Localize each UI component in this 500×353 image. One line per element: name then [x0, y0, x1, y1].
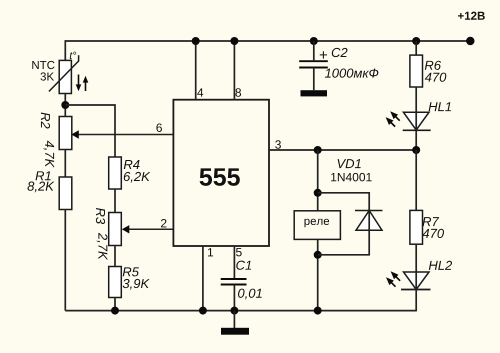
- wire R1 to bottom bus: [64, 210, 66, 311]
- wire R2 to R1: [64, 150, 66, 178]
- wire R7 top: [415, 150, 417, 210]
- relay K1 box: [294, 211, 340, 240]
- wire top +12V bus: [65, 40, 470, 42]
- arrow down (temperature): [76, 75, 82, 92]
- LED HL2 emission arrows: [386, 271, 400, 286]
- wire relay bottom: [317, 239, 319, 310]
- wire R7 to HL2: [415, 244, 417, 272]
- thermistor diagonal top stub: [78, 55, 80, 61]
- node R6/bus: [412, 37, 420, 45]
- thermistor RK1 NTC 3K body: [59, 60, 71, 93]
- wire ground stub: [233, 311, 235, 328]
- pin label 4: [197, 88, 203, 96]
- label 470 (R7): [423, 229, 445, 238]
- node C2/bus: [310, 37, 318, 45]
- label HL2: [429, 261, 452, 270]
- node relay/VD1 top: [314, 189, 322, 197]
- label 0,01: [238, 289, 262, 300]
- label VD1: [338, 159, 361, 168]
- wire C2 to ground: [313, 68, 315, 91]
- LED HL1 emission arrows: [386, 111, 400, 126]
- wire VD1 bottom branch: [318, 230, 370, 255]
- capacitor C2 plates: [299, 61, 328, 67]
- node junction NTC/R2/R4: [61, 101, 69, 109]
- node pin4/bus: [192, 37, 200, 45]
- label 555: [200, 168, 240, 185]
- wire pin1: [202, 246, 204, 311]
- node pin8/bus: [230, 37, 238, 45]
- wire R6 top: [415, 41, 417, 55]
- label R4: [124, 160, 140, 169]
- resistor R1 body: [59, 177, 72, 210]
- arrow up (resistance): [83, 76, 89, 91]
- op-amp U1 555 timer box: [173, 100, 269, 246]
- label R3: [96, 208, 105, 224]
- wire R6 to HL1: [415, 87, 417, 112]
- wire pin6 to R2 wiper: [78, 134, 174, 136]
- label C1: [236, 261, 251, 270]
- resistor R6 body: [410, 55, 423, 87]
- wire R5 to bottom bus: [114, 298, 116, 311]
- capacitor C1 plates: [221, 279, 247, 285]
- ground main: [221, 328, 249, 335]
- node R5/bus: [111, 307, 119, 315]
- wire R4 to R3: [114, 189, 116, 213]
- label 470 (R6): [425, 73, 447, 82]
- node relay/bus: [314, 307, 322, 315]
- potentiometer R2 body: [59, 117, 72, 150]
- resistor R7 body: [410, 210, 423, 244]
- pin label 5: [236, 248, 242, 256]
- label 1000мкФ: [325, 69, 378, 78]
- wire NTC top: [64, 40, 66, 60]
- label + (C2): [320, 51, 327, 58]
- label HL1: [429, 102, 451, 111]
- label 2,7K: [97, 233, 108, 260]
- diode VD1: [355, 211, 383, 231]
- node HL1/pin3: [412, 146, 420, 154]
- pin label 2: [161, 219, 166, 227]
- node pin1/bus: [199, 307, 207, 315]
- wire C2 top: [313, 41, 315, 60]
- wire bottom bus: [65, 310, 416, 312]
- label R7: [422, 217, 439, 226]
- pin label 6: [156, 123, 162, 131]
- thermistor diagonal stroke: [49, 61, 79, 92]
- pin label 3: [275, 140, 281, 148]
- wire pin2 to R3 wiper: [127, 228, 173, 230]
- node C1/bus: [230, 307, 238, 315]
- resistor R5 body: [109, 267, 122, 298]
- wire junction to R4 branch: [65, 105, 115, 157]
- wire VD1 top branch: [318, 193, 370, 211]
- label 6,2K: [124, 172, 150, 183]
- node pin3/relay: [314, 146, 322, 154]
- LED HL2: [401, 272, 431, 290]
- label R6: [425, 61, 441, 70]
- node +12V terminal: [466, 37, 474, 45]
- label R1: [35, 171, 50, 180]
- label +12В: [458, 12, 485, 20]
- potentiometer R3 body: [109, 213, 122, 246]
- arrow R2 wiper: [71, 130, 79, 138]
- ground C2: [301, 90, 328, 96]
- wire pin8: [233, 41, 235, 100]
- wire pin3: [269, 149, 416, 151]
- label C2: [332, 48, 348, 57]
- wire C1 to bus: [233, 285, 235, 311]
- wire pin5: [233, 246, 235, 279]
- resistor R4 body: [109, 157, 122, 189]
- label NTC: [32, 61, 54, 69]
- wire HL1 to pin3 net: [415, 130, 417, 150]
- LED HL1: [403, 112, 431, 130]
- wire R3 to R5: [114, 246, 116, 267]
- label R2: [41, 112, 50, 128]
- label 1N4001: [331, 173, 372, 181]
- label R5: [123, 267, 139, 276]
- wire HL2 to bus: [415, 290, 417, 312]
- label t°: [70, 52, 76, 59]
- wire pin4: [195, 41, 197, 100]
- node relay/VD1 bottom: [314, 251, 322, 259]
- label 4,7K: [43, 141, 54, 168]
- pin label 8: [235, 88, 241, 96]
- label реле: [304, 219, 329, 228]
- label 3K: [40, 72, 53, 80]
- wire relay top: [317, 150, 319, 211]
- pin label 1: [208, 248, 213, 256]
- arrow R3 wiper: [122, 225, 130, 233]
- label 3,9K: [123, 279, 150, 290]
- label 8,2K: [28, 182, 55, 193]
- wire NTC to R2: [64, 94, 66, 117]
